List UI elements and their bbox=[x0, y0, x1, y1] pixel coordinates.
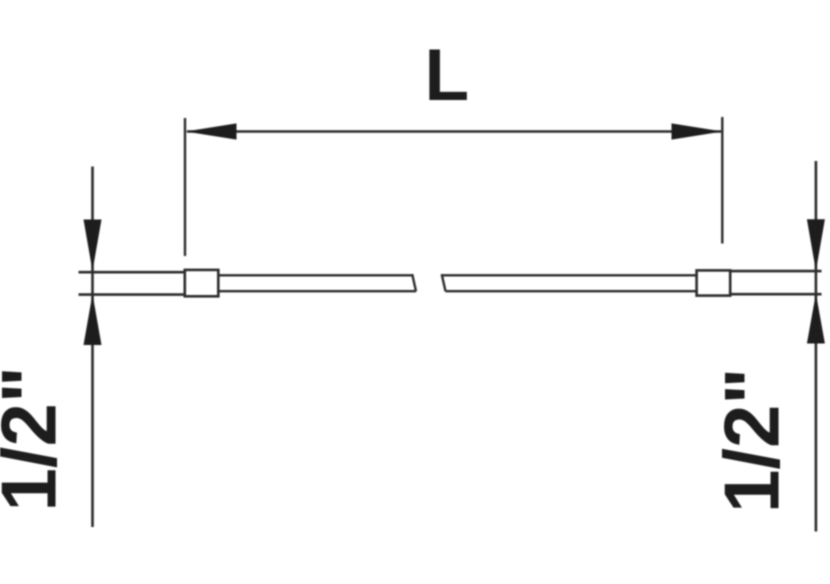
dimension line L bbox=[187, 130, 721, 133]
rod thick tube left bottom line bbox=[79, 293, 186, 296]
rod break cut edge left bbox=[412, 274, 416, 291]
rod thick tube right top line bbox=[730, 270, 821, 273]
arrowhead L left bbox=[186, 123, 237, 139]
left arrow down bbox=[84, 220, 102, 272]
left dimension vertical line bbox=[91, 167, 94, 528]
extension line right bbox=[721, 117, 723, 244]
svg-text:1/2": 1/2" bbox=[708, 368, 796, 513]
rod narrow right bottom line bbox=[446, 290, 697, 292]
rod narrow left bottom line bbox=[218, 290, 416, 292]
rod thick tube right bottom line bbox=[730, 293, 821, 296]
right arrow down bbox=[807, 219, 825, 271]
ferrule box left bbox=[185, 270, 219, 296]
extension line left bbox=[184, 118, 186, 256]
left arrow up bbox=[84, 294, 102, 345]
rod narrow right top line bbox=[442, 274, 697, 276]
rod thick tube left top line bbox=[79, 271, 186, 274]
svg-text:1/2": 1/2" bbox=[0, 366, 73, 511]
right dimension vertical line bbox=[815, 161, 818, 532]
rod break cut edge right bbox=[442, 274, 446, 291]
rod narrow left top line bbox=[218, 274, 412, 276]
right arrow up bbox=[807, 294, 825, 344]
arrowhead L right bbox=[672, 123, 723, 139]
svg-text:L: L bbox=[425, 35, 470, 116]
ferrule box right bbox=[697, 270, 731, 295]
